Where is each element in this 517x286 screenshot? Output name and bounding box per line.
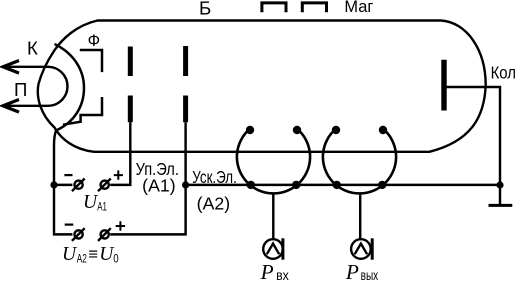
svg-text:Уск.Эл.: Уск.Эл. xyxy=(192,167,237,187)
node coupler2 right top xyxy=(379,126,387,134)
wire heater lead P xyxy=(3,105,49,107)
magnet pole piece 1 xyxy=(262,3,286,12)
svg-text:Маг: Маг xyxy=(344,0,373,16)
arrow P xyxy=(3,100,19,113)
label plus 2 xyxy=(116,221,125,230)
wire A2 lead xyxy=(184,122,186,185)
label minus 2 xyxy=(65,224,74,226)
arrow K xyxy=(3,61,19,74)
meter P_out xyxy=(351,238,372,259)
terminal plus UA2 xyxy=(98,228,111,241)
terminal minus UA1 xyxy=(72,179,85,192)
svg-text:П: П xyxy=(14,79,27,100)
node coupler1 left bottom xyxy=(247,181,255,189)
terminal plus UA1 xyxy=(98,179,111,192)
electrode A2 (accelerating) bars xyxy=(183,46,188,122)
node ground junction xyxy=(496,181,503,188)
node A2 junction xyxy=(182,181,189,188)
node coupler1 right top xyxy=(293,126,301,134)
node coupler1 left top xyxy=(246,126,254,134)
wire row2 plus to A2 riser xyxy=(110,185,185,235)
meter P_in xyxy=(263,238,283,259)
svg-text:U: U xyxy=(62,244,78,265)
svg-text:0: 0 xyxy=(113,251,119,265)
wire P_in meter lead xyxy=(272,193,274,239)
svg-text:(А2): (А2) xyxy=(197,193,230,213)
label minus 1 xyxy=(64,174,72,176)
svg-text:≡: ≡ xyxy=(88,245,98,264)
magnet pole piece 2 xyxy=(302,3,326,12)
electrode A1 (control) bars xyxy=(128,47,133,123)
wire collector to ground xyxy=(447,87,501,185)
coupler input loop xyxy=(237,129,310,194)
heater loop xyxy=(48,67,67,106)
svg-text:Ф: Ф xyxy=(88,31,101,50)
envelope (tube balloon Б) xyxy=(38,21,486,152)
ground xyxy=(499,185,501,204)
wire helix output line xyxy=(186,184,500,186)
wire row1 dot to terminal xyxy=(54,184,72,186)
svg-text:P: P xyxy=(260,260,274,281)
node coupler2 left top xyxy=(332,126,340,134)
svg-text:Кол: Кол xyxy=(491,62,516,82)
svg-text:P: P xyxy=(345,260,359,281)
svg-text:вых: вых xyxy=(361,268,379,281)
node coupler1 right bottom xyxy=(292,181,300,189)
node cathode junction xyxy=(50,181,57,188)
wire A1 lead xyxy=(110,122,130,185)
svg-text:(А1): (А1) xyxy=(142,176,175,196)
wire left vertical to row 2 xyxy=(54,185,72,235)
svg-text:А1: А1 xyxy=(97,200,107,214)
svg-text:вх: вх xyxy=(276,268,289,281)
svg-text:А2: А2 xyxy=(77,251,87,265)
wire P_out meter lead xyxy=(359,193,361,239)
svg-text:К: К xyxy=(27,37,38,58)
focusing electrode F xyxy=(63,50,102,125)
coupler output loop xyxy=(323,129,396,194)
svg-text:Б: Б xyxy=(199,0,211,19)
cathode K arc xyxy=(55,44,85,131)
label plus 1 xyxy=(114,170,123,179)
node coupler2 right bottom xyxy=(378,181,386,189)
node coupler2 left bottom xyxy=(333,181,341,189)
collector electrode xyxy=(441,60,446,111)
terminal minus UA2 xyxy=(72,228,85,241)
wire cathode lead K xyxy=(3,66,49,68)
wire cathode down lead xyxy=(54,131,56,185)
